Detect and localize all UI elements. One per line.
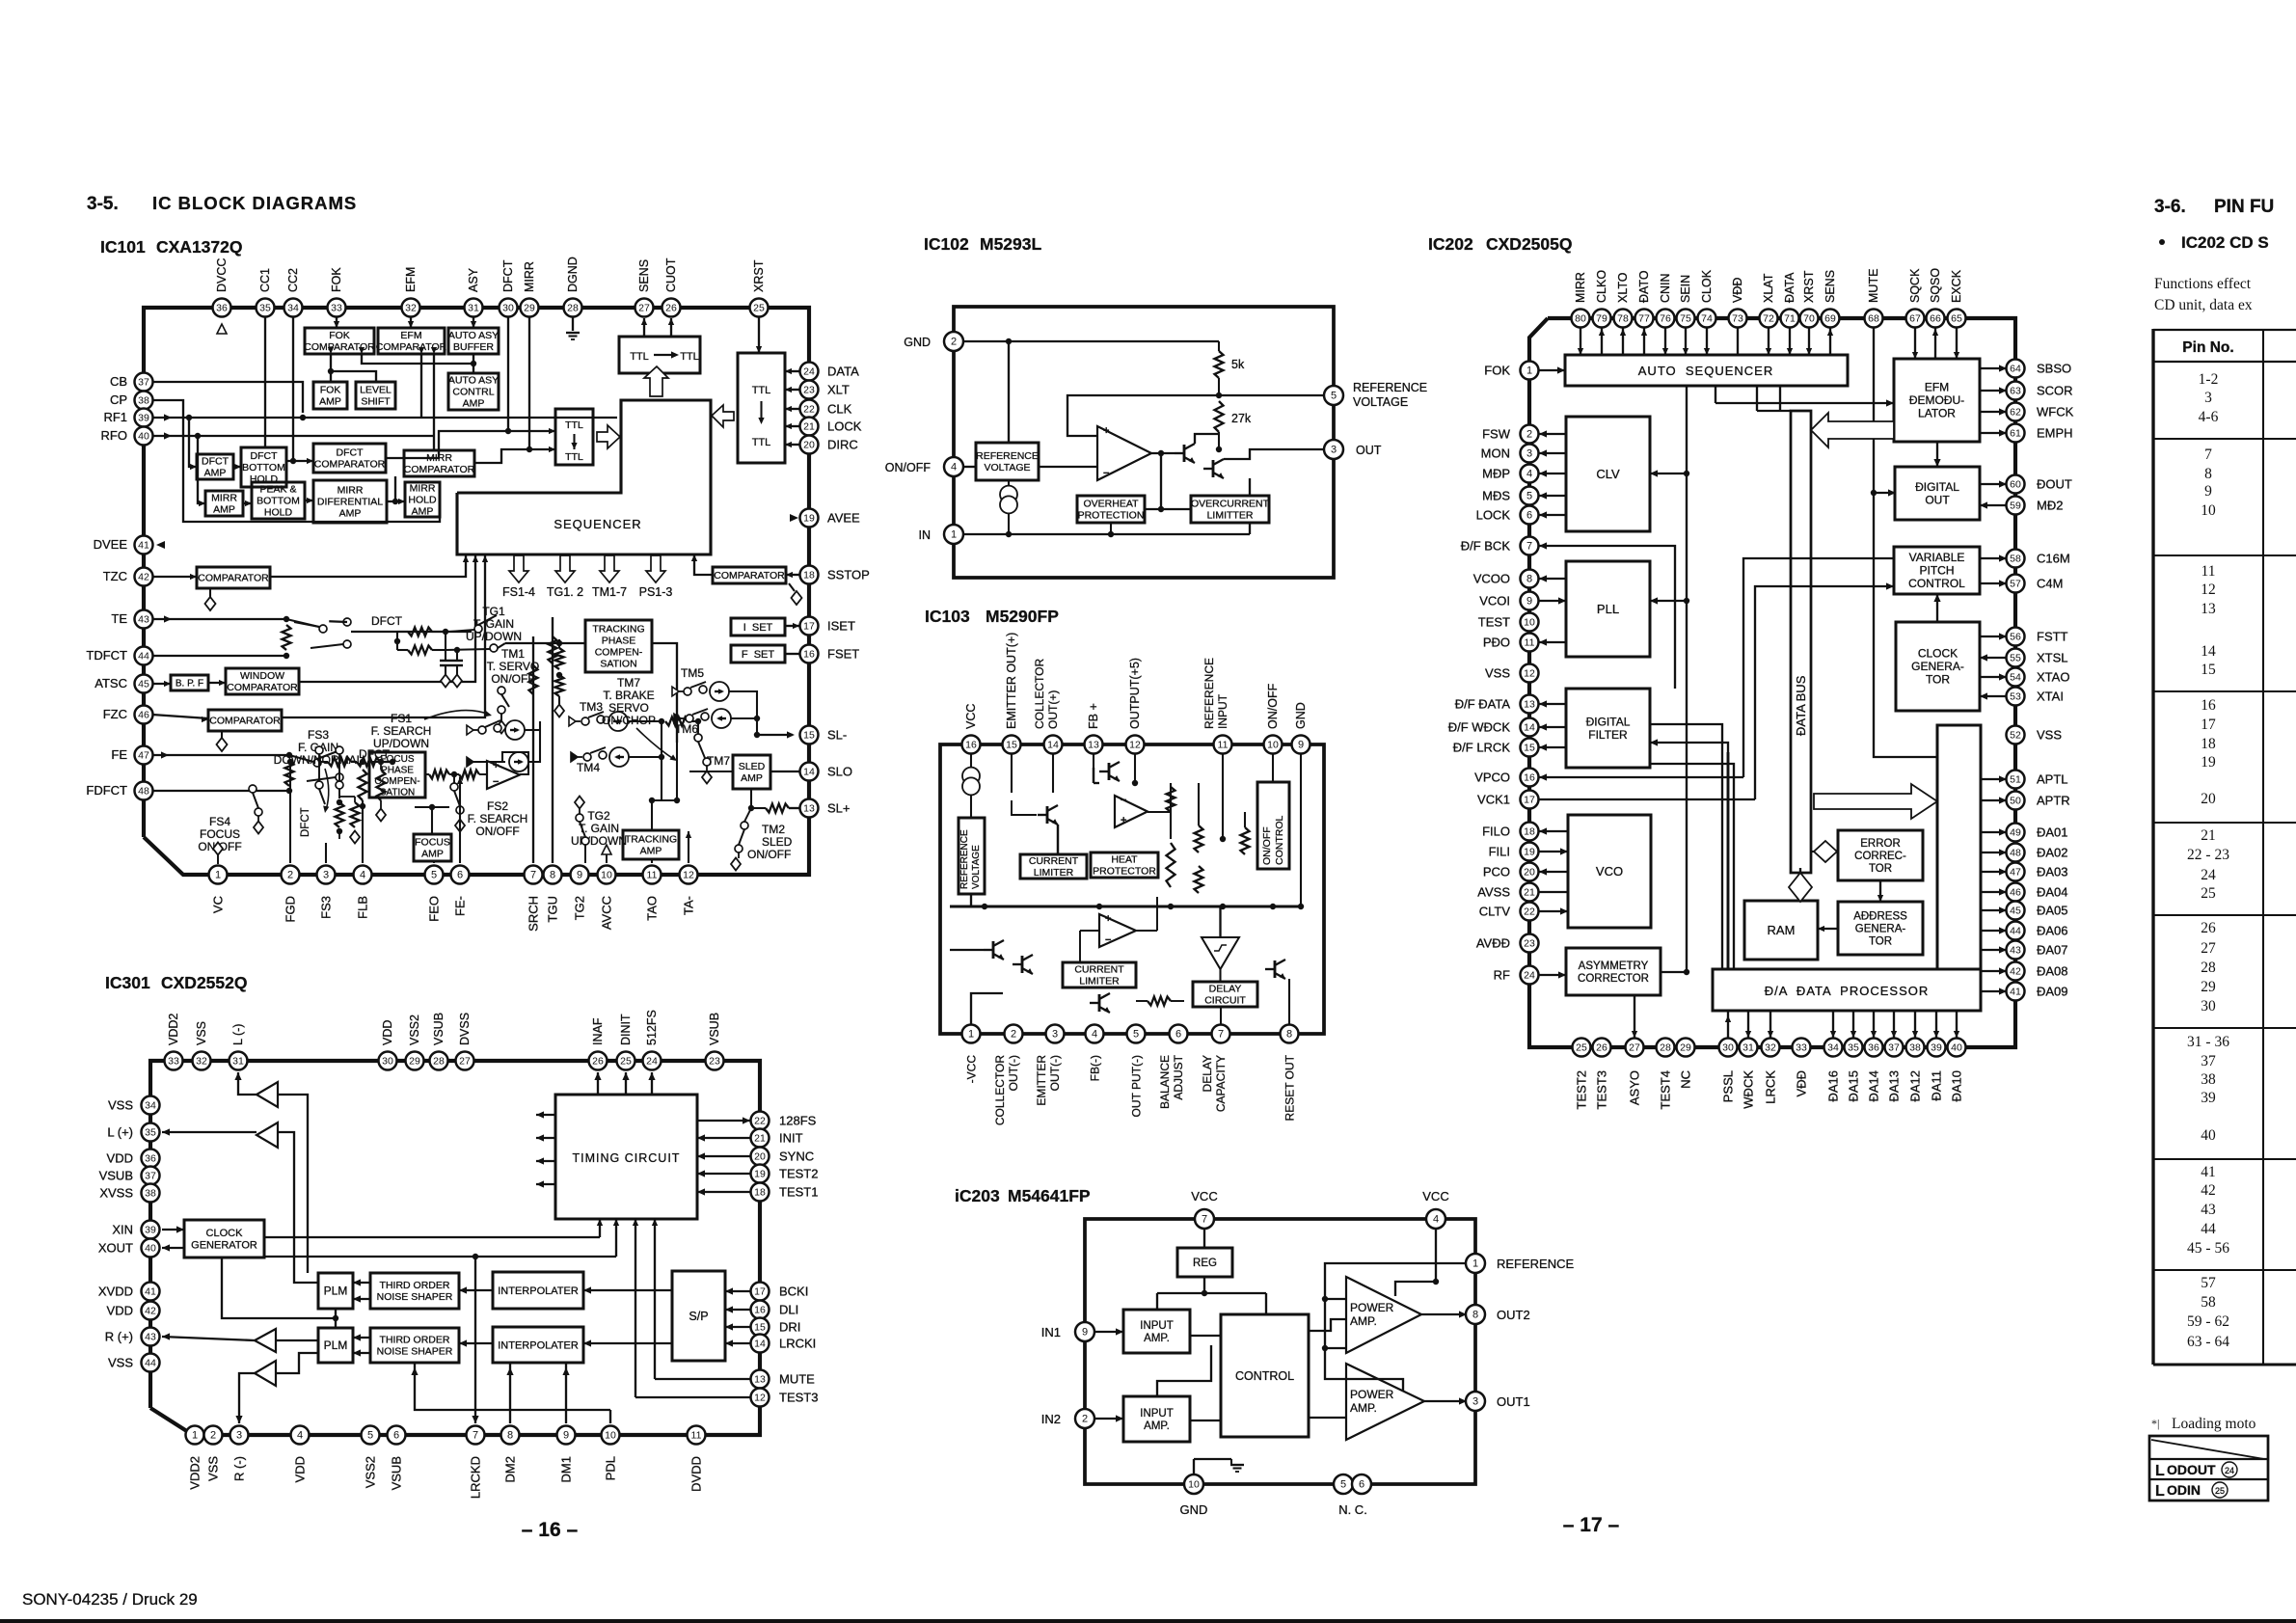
svg-text:CUOT: CUOT	[664, 257, 678, 292]
label FS2 F.SEARCH ON/OFF	[468, 799, 528, 838]
transistor Q2 IC102	[1203, 459, 1224, 478]
block OVERCURRENT LIMITTER	[1191, 496, 1270, 523]
IC101 pin 6 (FE-)	[451, 866, 470, 884]
block FOCUS AMP	[414, 834, 451, 861]
svg-text:TG2: TG2	[573, 896, 587, 920]
wire L- input	[278, 1095, 308, 1273]
svg-text:AMP.: AMP.	[1350, 1401, 1377, 1415]
svg-text:2: 2	[1082, 1414, 1088, 1425]
block PLL	[1566, 561, 1650, 657]
IC202 pin 9 (VCOI)	[1521, 592, 1539, 610]
svg-text:SEIN: SEIN	[1679, 275, 1692, 303]
svg-text:20: 20	[1524, 867, 1535, 879]
svg-text:CXD2505Q: CXD2505Q	[1486, 234, 1573, 254]
wire to SL-	[754, 731, 795, 738]
svg-text:41: 41	[145, 1286, 156, 1298]
svg-text:42: 42	[2010, 966, 2021, 978]
wire pin35 down	[264, 317, 266, 447]
resistor r4	[1195, 866, 1203, 893]
block LEVEL SHIFT	[356, 382, 395, 409]
transistor lower mid	[1090, 993, 1110, 1013]
switch DFCT (FE)	[289, 751, 343, 781]
svg-text:BOTTOM: BOTTOM	[242, 462, 285, 473]
wire MIRR HOLD to MIRR COMPARATOR	[394, 476, 396, 501]
svg-text:FEO: FEO	[427, 896, 442, 922]
wire pa2 out	[1424, 1397, 1467, 1404]
IC101 pin 23 (XLT)	[800, 381, 819, 399]
svg-text:MIRR: MIRR	[523, 261, 536, 292]
wire sequencer to pin 79	[1599, 328, 1605, 355]
svg-text:27: 27	[2201, 940, 2216, 957]
svg-text:5: 5	[1526, 491, 1532, 502]
wire TEST3 line	[633, 1219, 750, 1397]
IC301 pin 20 (SYNC)	[751, 1148, 770, 1166]
label FS1 F.SEARCH UP/DOWN	[371, 712, 432, 750]
svg-text:2: 2	[951, 337, 957, 348]
IC101 pin 17 (ISET)	[800, 617, 819, 636]
wire D/A out to pin x=1943	[1871, 1011, 1877, 1038]
svg-text:2: 2	[1011, 1029, 1016, 1041]
svg-text:OUT1: OUT1	[1497, 1394, 1530, 1409]
svg-text:TM6: TM6	[675, 722, 698, 736]
svg-text:8: 8	[507, 1430, 513, 1442]
IC202 pin 14 (&#272;/F W&#272;CK)	[1521, 718, 1539, 737]
svg-text:VARIABLE: VARIABLE	[1909, 551, 1965, 564]
IC101 pin 11 (TAO)	[643, 866, 662, 884]
power amp 1	[1346, 1277, 1421, 1353]
wire trk out to TM7 col	[674, 743, 680, 803]
svg-text:IN1: IN1	[1041, 1325, 1061, 1339]
IC301 pin 27 (DVSS)	[456, 1052, 474, 1070]
wire SSTOP to comparator	[786, 572, 799, 578]
svg-text:SENS: SENS	[1823, 270, 1837, 303]
IC101 pin 5 (FEO)	[425, 866, 444, 884]
IC202 pin 60 (&#272;OUT)	[2007, 475, 2025, 494]
wire control to pa1	[1309, 1319, 1346, 1331]
svg-text:6: 6	[457, 870, 463, 881]
svg-text:LRCK: LRCK	[1764, 1070, 1778, 1104]
block THIRD ORDER NOISE SHAPER 1	[370, 1273, 459, 1309]
svg-text:PS1-3: PS1-3	[639, 585, 673, 599]
block S/P	[672, 1271, 725, 1361]
svg-text:COMPARATOR: COMPARATOR	[198, 573, 269, 584]
svg-text:1: 1	[1526, 365, 1532, 377]
svg-text:CORRECTOR: CORRECTOR	[1578, 973, 1649, 985]
svg-text:CXD2552Q: CXD2552Q	[161, 973, 248, 992]
svg-text:CAPACITY: CAPACITY	[1214, 1055, 1228, 1112]
svg-text:OVERHEAT: OVERHEAT	[1084, 499, 1140, 510]
wire pin4 to pa1 top	[1395, 1282, 1436, 1296]
wire TA- pin12 up	[686, 831, 691, 863]
wire focus phase chain	[425, 771, 487, 777]
IC103 pin 10	[1264, 736, 1283, 754]
svg-text:17: 17	[2201, 717, 2216, 733]
title IC301 CXD2552Q	[105, 973, 248, 992]
svg-text:M54641FP: M54641FP	[1008, 1186, 1091, 1205]
svg-text:9: 9	[577, 870, 582, 881]
svg-text:7: 7	[1526, 541, 1532, 553]
wire FE- pin6	[457, 777, 463, 863]
block PLM 2	[318, 1328, 353, 1363]
wire SLO out	[770, 771, 799, 772]
svg-text:11: 11	[1525, 637, 1535, 649]
wire opamp out	[1151, 450, 1175, 456]
IC102 pin 5 (REFERENCE VOLTAGE)	[1324, 386, 1343, 405]
switch FS2	[450, 774, 465, 832]
svg-text:EMITTER: EMITTER	[1035, 1055, 1048, 1106]
svg-text:15: 15	[1006, 740, 1017, 751]
block I SET	[731, 618, 785, 636]
hollow arrow TTL to sequencer	[597, 425, 620, 448]
IC301 pin 25 (DINIT)	[617, 1052, 635, 1070]
wire to EFM demod	[1715, 386, 1894, 407]
svg-text:37: 37	[145, 1171, 156, 1182]
block PLM 1	[318, 1273, 353, 1309]
svg-text:5: 5	[1133, 1029, 1139, 1041]
wire pin 66 up	[1932, 328, 1938, 359]
wire FSET	[785, 653, 799, 655]
block VCO	[1568, 815, 1651, 928]
svg-text:-VCC: -VCC	[965, 1055, 979, 1084]
svg-text:26: 26	[2201, 920, 2216, 936]
svg-text:C16M: C16M	[2037, 552, 2070, 566]
wire overcurrent to emitter	[1249, 478, 1251, 534]
svg-text:*|: *|	[2151, 1417, 2159, 1430]
wire DRI to SP	[725, 1323, 750, 1330]
svg-text:FOK: FOK	[329, 330, 350, 341]
svg-text:9: 9	[2204, 483, 2212, 500]
svg-text:F SET: F SET	[742, 649, 775, 661]
svg-text:CC2: CC2	[286, 268, 300, 292]
svg-text:1: 1	[1472, 1258, 1478, 1270]
svg-text:VOLTAGE: VOLTAGE	[971, 845, 982, 889]
svg-text:4: 4	[1526, 469, 1532, 480]
resistor FE path a	[328, 758, 351, 767]
IC202 pin 70 (XRST)	[1800, 310, 1819, 328]
svg-text:28: 28	[1660, 1042, 1671, 1054]
IC301 pin 30 (VDD)	[379, 1052, 397, 1070]
resistor r5	[1241, 812, 1250, 854]
IC101 pin 42 (TZC)	[135, 568, 153, 586]
IC101 pin 39 (RF1)	[135, 409, 153, 427]
IC101 pin 8 (TGU)	[544, 866, 562, 884]
IC101 pin 7 (SRCH)	[525, 866, 543, 884]
wire comparator to sequencer	[691, 555, 713, 575]
svg-text:SERVO: SERVO	[608, 701, 649, 715]
block MIRR HOLD AMP	[405, 482, 440, 518]
wire TM5/TM6 join	[729, 691, 760, 735]
IC202 pin 54 (XTAO)	[2007, 668, 2025, 687]
svg-text:−: −	[1121, 795, 1126, 806]
svg-text:TAO: TAO	[645, 896, 660, 921]
svg-text:ĐATA BUS: ĐATA BUS	[1794, 675, 1808, 736]
svg-text:ĐA15: ĐA15	[1847, 1070, 1861, 1102]
IC103 pin 4	[1086, 1025, 1104, 1043]
svg-text:SRCH: SRCH	[527, 896, 541, 932]
svg-text:14: 14	[1047, 740, 1059, 751]
IC301 pin 41 (XVDD)	[142, 1283, 160, 1301]
svg-text:TOR: TOR	[1869, 863, 1892, 875]
wire SP to interp2	[583, 1339, 672, 1346]
svg-text:25: 25	[2201, 885, 2216, 902]
switch TM7	[694, 721, 712, 784]
wire IN rail	[963, 523, 1250, 537]
resistor r1	[1167, 787, 1175, 839]
DA0x arrow y=863	[1981, 828, 2007, 835]
IC103 pin 6	[1170, 1025, 1188, 1043]
svg-text:ĐOUT: ĐOUT	[2037, 477, 2072, 492]
TM6 row	[674, 709, 731, 728]
svg-text:35: 35	[259, 303, 271, 314]
IC202 pin 52 (VSS)	[2007, 726, 2025, 744]
TM5 row	[672, 682, 729, 701]
svg-text:4: 4	[1433, 1214, 1439, 1226]
resistor below trk a	[555, 639, 564, 678]
svg-text:VSS2: VSS2	[408, 1014, 421, 1045]
wire CLV to pin at y=450	[1539, 430, 1566, 437]
wire FE path	[321, 759, 395, 765]
wire MUTE down	[1871, 328, 1937, 757]
IC301 pin 22 (128FS)	[751, 1112, 770, 1130]
svg-text:NOISE SHAPER: NOISE SHAPER	[377, 1346, 453, 1358]
svg-text:INTERPOLATER: INTERPOLATER	[498, 1339, 579, 1351]
wire 128FS out	[697, 1117, 750, 1123]
IC101 pin 1 (VC)	[209, 866, 228, 884]
svg-text:GENERA-: GENERA-	[1855, 924, 1906, 935]
svg-text:L: L	[2155, 1483, 2165, 1500]
wire PLM1-PLM2 link	[335, 1309, 337, 1328]
svg-text:SHIFT: SHIFT	[361, 396, 391, 408]
svg-text:48: 48	[138, 786, 149, 798]
TM7 curve arrow	[636, 728, 677, 761]
wire TEST2 in	[697, 1170, 750, 1177]
IC202 pin 31 (W&#272;CK)	[1740, 1039, 1758, 1057]
wire DIRC to TTL	[785, 442, 799, 447]
svg-text:ASYMMETRY: ASYMMETRY	[1579, 960, 1649, 972]
block SEQUENCER	[457, 400, 711, 555]
wire MUTE line	[652, 1219, 750, 1379]
svg-text:FILO: FILO	[1482, 825, 1510, 839]
DA0x arrow y=884	[1981, 849, 2007, 855]
IC203 pin 5 (N.C.)	[1334, 1474, 1353, 1494]
IC203 pin 1 (REFERENCE)	[1466, 1254, 1485, 1273]
svg-text:VSS: VSS	[108, 1098, 133, 1113]
wire FGD up	[287, 759, 293, 863]
svg-text:39: 39	[145, 1225, 156, 1236]
svg-text:10: 10	[2201, 502, 2216, 519]
svg-text:ON/CHOP: ON/CHOP	[602, 714, 656, 727]
svg-text:IC101: IC101	[100, 237, 146, 257]
svg-text:LOCK: LOCK	[1476, 508, 1511, 523]
svg-text:6: 6	[1175, 1029, 1181, 1041]
table outer left border	[2151, 329, 2154, 1365]
svg-text:8: 8	[550, 870, 555, 881]
svg-text:18: 18	[803, 570, 815, 582]
DA09 arrow	[1981, 987, 2007, 994]
FS1 switch row 1	[467, 720, 525, 740]
transistor Q1 IC102	[1175, 444, 1195, 463]
svg-text:37: 37	[138, 377, 149, 389]
wire amp2 rail	[1157, 1345, 1211, 1396]
wire D/A out to pin x=1813	[1745, 1011, 1751, 1038]
svg-text:16: 16	[803, 649, 815, 661]
wire clock out a	[264, 1219, 603, 1237]
svg-text:UP/DOWN: UP/DOWN	[466, 630, 522, 643]
resistor lower	[1136, 997, 1184, 1006]
svg-text:10: 10	[605, 1430, 616, 1442]
sequencer verticals	[1757, 386, 1791, 411]
comparator SSTOP diamond	[789, 583, 802, 605]
IC202 pin 12 (VSS)	[1521, 664, 1539, 683]
wire sequencer to pin 78	[1620, 328, 1626, 355]
IC301 pin 34 (VSS)	[142, 1096, 160, 1115]
svg-text:MIRR: MIRR	[211, 493, 237, 504]
IC301 pin 19 (TEST2)	[751, 1165, 770, 1183]
svg-text:14: 14	[1524, 722, 1535, 734]
svg-text:HOLD: HOLD	[264, 507, 293, 519]
svg-text:DIRC: DIRC	[827, 438, 858, 452]
IC101 pin 21 (LOCK)	[800, 418, 819, 436]
svg-text:GND: GND	[1180, 1502, 1208, 1517]
wire VCO FILO	[1539, 827, 1568, 834]
svg-text:SL+: SL+	[827, 801, 851, 816]
wire D/A out to pin x=1922	[1850, 1011, 1856, 1038]
DA0x arrow y=965	[1981, 927, 2007, 933]
IC301 pin 37 (VSUB)	[142, 1167, 160, 1185]
IC101 pin 27 (SENS)	[635, 299, 654, 317]
wire interp2 to tons2	[459, 1339, 493, 1346]
svg-text:PSSL: PSSL	[1721, 1070, 1736, 1102]
title IC102 M5293L	[924, 234, 1042, 254]
svg-text:RAM: RAM	[1768, 923, 1796, 937]
IC202 pin 47 (&#272;A03)	[2007, 863, 2025, 881]
svg-text:ĐA07: ĐA07	[2037, 943, 2068, 958]
svg-text:AMP: AMP	[741, 772, 763, 784]
svg-text:FE-: FE-	[453, 896, 468, 916]
text Loading motor	[2151, 1416, 2256, 1432]
IC101 pin 25 (XRST)	[750, 299, 769, 317]
svg-text:20: 20	[2201, 791, 2216, 807]
svg-text:XIN: XIN	[112, 1223, 133, 1237]
svg-text:COMPARATOR: COMPARATOR	[404, 464, 475, 475]
hollow arrow sequencer output TG1. 2	[555, 555, 575, 582]
svg-text:9: 9	[563, 1430, 569, 1442]
svg-text:−: −	[1105, 934, 1111, 946]
IC202 pin 71 (&#272;ATA)	[1781, 310, 1799, 328]
svg-text:R (-): R (-)	[232, 1456, 247, 1481]
wire D/A out to pin x=2029	[1954, 1011, 1959, 1038]
wire MD2 in	[1980, 501, 2007, 508]
IC301 pin 18 (TEST1)	[751, 1183, 770, 1202]
svg-text:VSUB: VSUB	[432, 1013, 446, 1045]
svg-text:FDFCT: FDFCT	[86, 783, 127, 798]
IC301 pin 33 (VDD2)	[165, 1052, 183, 1070]
svg-text:AMP: AMP	[213, 504, 235, 516]
wire pin30 down	[507, 317, 509, 431]
IC202 chip outline	[1529, 318, 2015, 1047]
wire CLV to pin at y=514	[1539, 492, 1566, 499]
IC101 pin 2 (FGD)	[282, 866, 300, 884]
IC202 pin 3 (MON)	[1521, 445, 1539, 463]
wire feed CLV	[1650, 470, 1687, 476]
svg-text:42: 42	[138, 572, 149, 583]
block EFM DEMODULATOR	[1894, 359, 1980, 442]
block RAM	[1744, 901, 1818, 960]
IC202 pin 18 (FILO)	[1521, 823, 1539, 841]
svg-text:SQCK: SQCK	[1908, 268, 1922, 303]
wire LRCKD	[472, 1257, 478, 1423]
svg-text:TM7: TM7	[707, 754, 730, 768]
wire VPCO	[1539, 773, 1743, 780]
svg-text:Đ/A ĐATA PROCESSOR: Đ/A ĐATA PROCESSOR	[1765, 984, 1930, 998]
block CLOCK GENERATOR (IC202)	[1896, 622, 1980, 711]
IC101 pin 29 (MIRR)	[521, 299, 539, 317]
wire pin29 down	[528, 317, 530, 449]
wire pin 73 stub	[1737, 328, 1739, 355]
wire pin32 to EFM comparator	[408, 317, 414, 328]
svg-text:57: 57	[2010, 579, 2021, 590]
svg-text:VSS: VSS	[2037, 728, 2062, 743]
svg-text:38: 38	[2201, 1071, 2216, 1088]
block AUTO ASY CONTRL AMP	[448, 373, 499, 410]
capacitor TQ1 b	[451, 650, 463, 688]
svg-text:ODIN: ODIN	[2167, 1482, 2201, 1498]
svg-text:CONTROL: CONTROL	[1274, 816, 1285, 865]
svg-text:POWER: POWER	[1350, 1301, 1394, 1314]
svg-text:REFERENCE: REFERENCE	[976, 450, 1039, 462]
table row line	[2153, 1158, 2296, 1160]
svg-text:COMPARATOR: COMPARATOR	[304, 341, 375, 353]
svg-text:VSS: VSS	[206, 1456, 221, 1481]
IC301 pin 10 (PDL)	[602, 1426, 620, 1445]
IC102 pin 2 (GND)	[944, 332, 963, 351]
svg-text:50: 50	[2010, 796, 2021, 807]
svg-text:32: 32	[1765, 1042, 1776, 1054]
IC203 pin 6 (N.C.)	[1352, 1474, 1371, 1494]
svg-text:39: 39	[1931, 1042, 1942, 1054]
svg-text:ASY: ASY	[467, 267, 480, 292]
wire TDFCT pin44	[152, 653, 289, 659]
wire on/off 10	[1272, 754, 1274, 782]
svg-text:11: 11	[1218, 740, 1229, 751]
wire pin7 to REG	[1203, 1229, 1205, 1248]
block REG	[1177, 1248, 1232, 1277]
IC101 pin 37 (CB)	[135, 373, 153, 392]
svg-text:52: 52	[2010, 730, 2021, 742]
IC202 pin 64 (SBSO)	[2007, 360, 2025, 378]
wire SYNC in	[697, 1152, 750, 1159]
svg-text:67: 67	[1909, 313, 1921, 325]
IC101 pin 38 (CP)	[135, 392, 153, 410]
svg-text:DELAY: DELAY	[1209, 984, 1242, 995]
wire MIRR COMP out	[474, 446, 555, 463]
svg-text:ISET: ISET	[827, 619, 855, 634]
svg-text:SONY-04235 / Druck 29: SONY-04235 / Druck 29	[22, 1590, 198, 1609]
wire TQ1 rails	[394, 629, 460, 653]
svg-text:27: 27	[1629, 1042, 1640, 1054]
svg-text:L (+): L (+)	[107, 1125, 133, 1140]
IC202 pin 73 (V&#272;&#272;)	[1729, 310, 1747, 328]
svg-text:LRCKD: LRCKD	[469, 1456, 483, 1499]
IC202 pin 55 (XTSL)	[2007, 649, 2025, 667]
svg-text:16: 16	[2201, 697, 2216, 714]
svg-text:VCO: VCO	[1596, 864, 1623, 879]
svg-text:74: 74	[1701, 313, 1713, 325]
wire TTLTTL to pin27	[641, 318, 647, 337]
title IC203 M54641FP	[955, 1186, 1091, 1205]
svg-text:6: 6	[1526, 510, 1532, 522]
IC301 pin 24 (512FS)	[643, 1052, 662, 1070]
